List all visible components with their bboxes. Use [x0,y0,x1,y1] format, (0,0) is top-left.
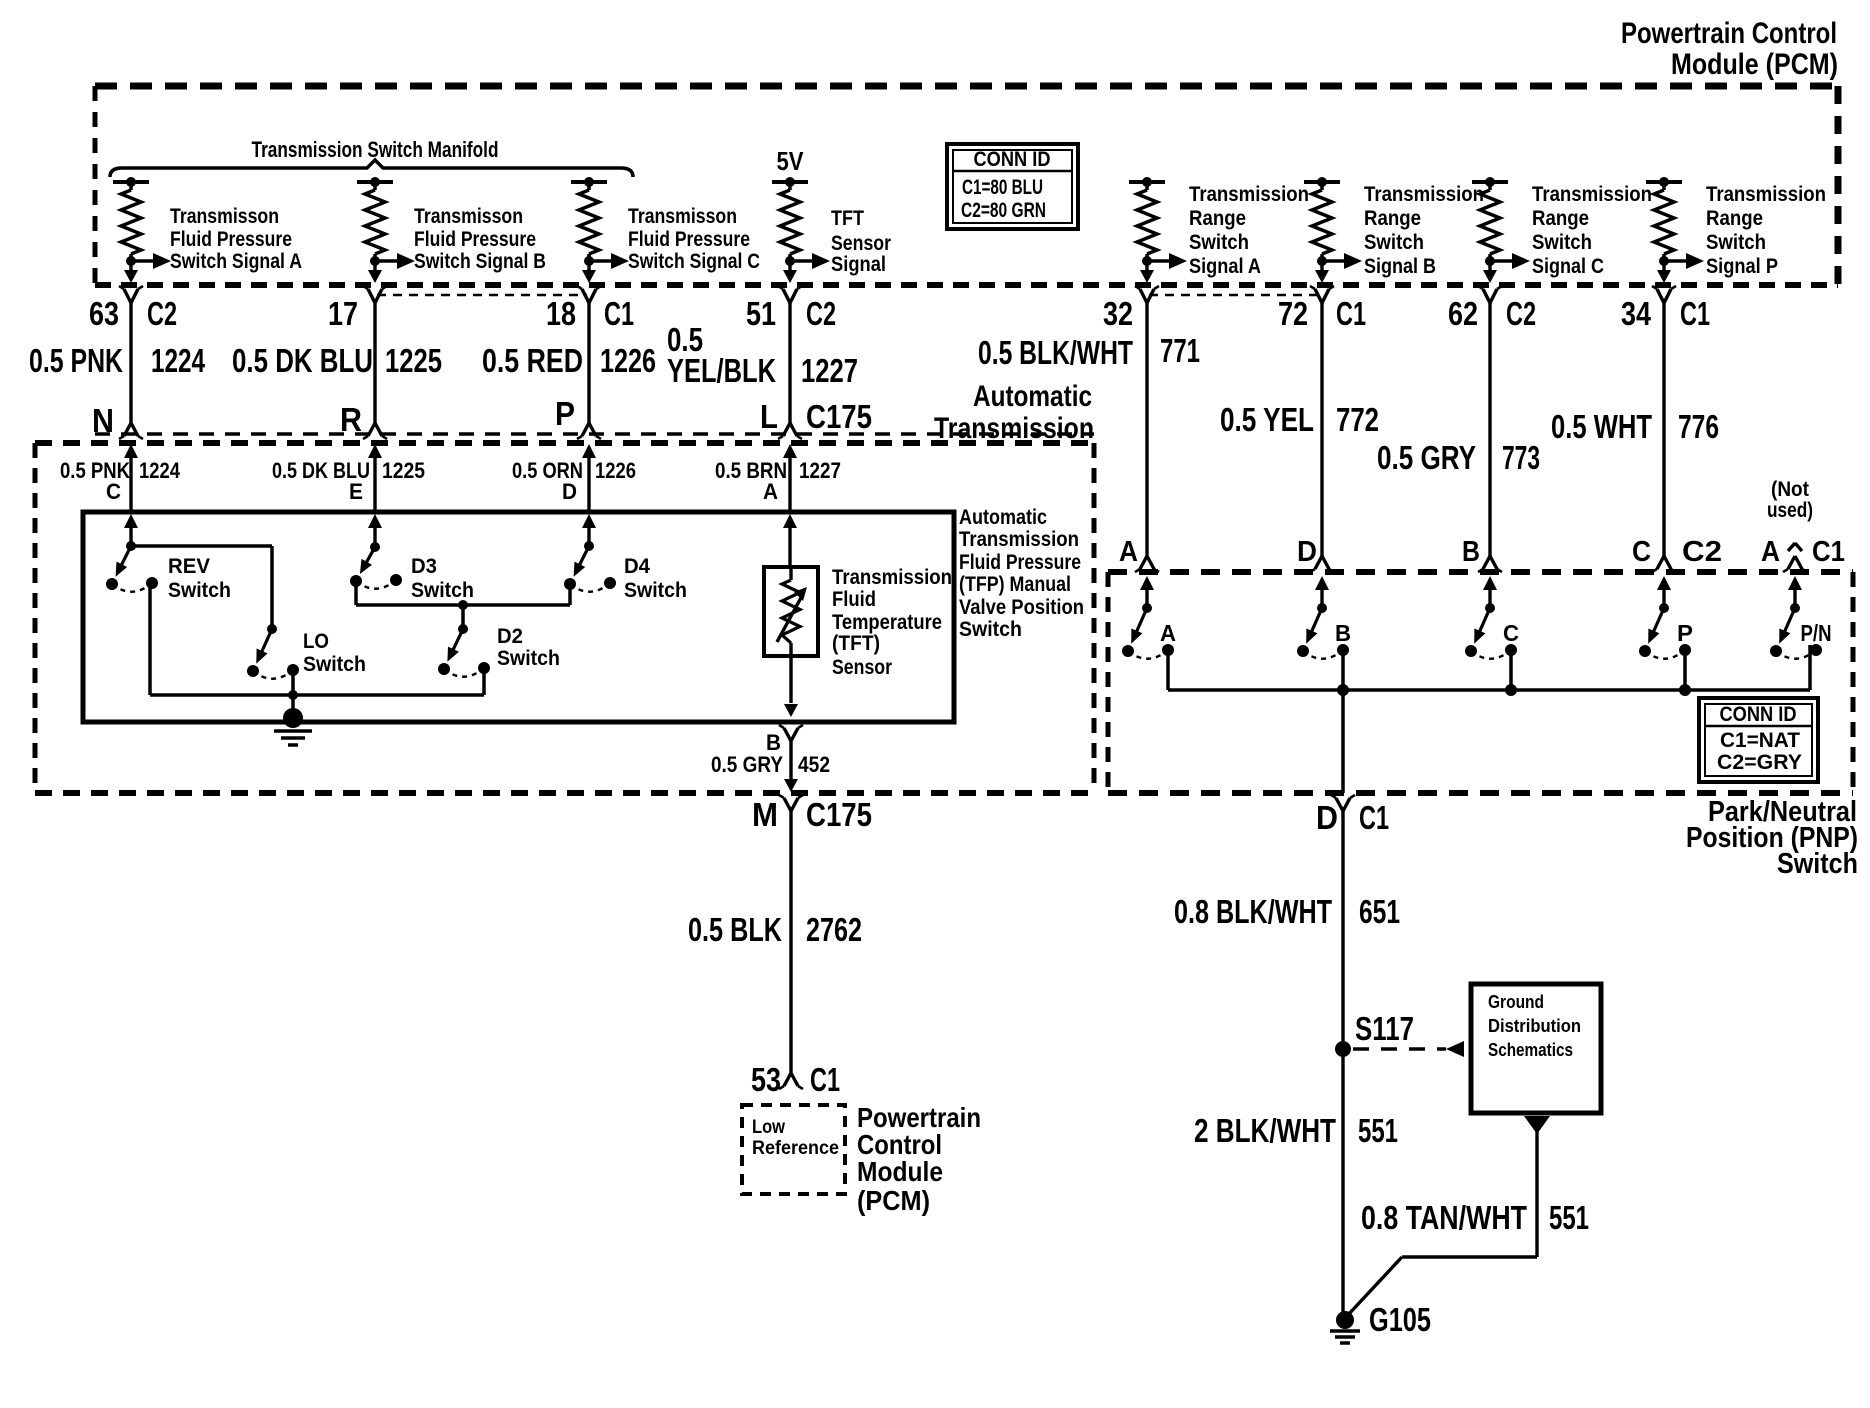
svg-text:Transmission: Transmission [959,528,1079,551]
svg-text:C175: C175 [806,398,872,435]
wire 1227 into transmission [783,444,797,512]
wire 0.5 DK BLU 1225 label [232,342,442,379]
svg-text:D3: D3 [411,555,437,578]
TFP switch signal C pull-up resistor [571,177,629,283]
svg-text:Switch: Switch [1532,231,1592,254]
C175 pin N [92,402,114,439]
TFP ground stem [291,695,295,714]
svg-text:Switch: Switch [497,647,560,670]
PNP switch P [1639,603,1691,659]
svg-text:1226: 1226 [600,342,656,379]
PNP switch C input arrow [1483,576,1497,608]
svg-text:C: C [106,479,121,504]
PNP switch dashed box bottom [1108,790,1853,796]
svg-text:A: A [1160,620,1176,646]
PNP switch P contact stub [1679,651,1691,696]
D2 switch label [497,625,560,670]
svg-text:32: 32 [1103,295,1133,332]
TFP pin C [106,479,121,504]
manifold bracket [110,160,633,177]
svg-text:1225: 1225 [385,342,442,379]
svg-text:Ground: Ground [1488,992,1544,1012]
TFP internal ground bus [150,693,484,697]
svg-text:Signal P: Signal P [1706,255,1778,278]
svg-text:TFT: TFT [831,207,864,230]
svg-text:REV: REV [168,555,210,578]
Powertrain Control Module PCM bottom label [857,1102,981,1216]
svg-text:(TFT): (TFT) [832,632,880,655]
svg-text:Fluid: Fluid [832,588,876,611]
svg-text:Fluid Pressure: Fluid Pressure [414,228,536,251]
TFT sensor label [832,566,952,679]
svg-text:C1: C1 [810,1061,840,1098]
svg-text:Switch Signal C: Switch Signal C [628,250,760,273]
PNP switch C contact stub [1505,651,1517,696]
PNP output wire D [1337,651,1349,793]
svg-text:Switch: Switch [1777,848,1858,880]
svg-text:5V: 5V [777,146,805,176]
svg-text:Module (PCM): Module (PCM) [1671,48,1838,81]
PCM module dashed box left border [93,86,98,285]
TFP pin E [349,479,363,504]
TFP switch box label [959,506,1084,641]
transmission range switch signal C pull-up resistor label [1532,183,1652,278]
svg-text:Switch: Switch [411,579,474,602]
svg-text:used): used) [1767,499,1813,522]
svg-text:C2: C2 [1682,536,1722,568]
svg-text:Transmisson: Transmisson [414,205,523,228]
wire 1226 into transmission [582,444,596,512]
C175 pin M label [752,796,872,833]
svg-text:Switch Signal B: Switch Signal B [414,250,546,273]
transmission range switch signal C pull-up resistor [1472,177,1530,283]
wire 0.5 PNK 1224 label [29,342,205,379]
PNP pin C C2 label [1632,536,1722,568]
svg-text:Switch: Switch [168,579,231,602]
svg-text:0.5 PNK: 0.5 PNK [29,342,123,379]
PNP pin A label [1119,536,1138,568]
svg-text:Signal A: Signal A [1189,255,1261,278]
pin 34 C1 [1621,295,1710,332]
D2 switch [438,624,490,677]
svg-text:0.5 RED: 0.5 RED [482,342,583,379]
TFT sensor signal label [831,207,891,276]
REV switch [106,541,158,592]
CONN ID table PNP connectors [1699,698,1818,782]
svg-text:773: 773 [1502,439,1540,476]
C175 pin L label and C175 name [760,398,872,435]
svg-text:YEL/BLK: YEL/BLK [667,352,776,389]
PNP switch B [1297,603,1349,659]
wire TFT to box bottom [784,656,798,717]
wire A into TFP box [783,514,797,566]
Ground Distribution Schematics label [1488,992,1581,1060]
wire 0.5 WHT 776 label [1551,408,1719,445]
wire 2 BLK/WHT 551 label [1194,1112,1398,1149]
TFT sensor signal pull-up resistor [772,177,830,283]
Low Reference label [752,1117,839,1159]
svg-text:0.8 BLK/WHT: 0.8 BLK/WHT [1174,893,1332,930]
wire 0.8 TAN/WHT 551 branch [1347,1116,1550,1316]
wire 776 PCM connector fork [1652,286,1676,303]
C175 connector dashed line [95,432,1094,436]
PCM module dashed box bottom border [95,282,1838,288]
PNP switch dashed box right [1851,572,1856,793]
transmission range switch signal P pull-up resistor [1646,177,1704,283]
pin 32 [1103,295,1133,332]
svg-text:0.5 DK BLU: 0.5 DK BLU [232,342,373,379]
svg-text:C2: C2 [806,295,836,332]
TFP pin B label [766,730,781,755]
svg-text:P/N: P/N [1801,620,1832,646]
svg-text:C2=GRY: C2=GRY [1717,751,1802,774]
PNP pin A C1 not used label [1761,536,1845,568]
D4 switch label [624,555,687,602]
svg-text:Module: Module [857,1156,943,1187]
PNP switch P/N contact stub [1808,645,1812,690]
PNP pin D label [1297,536,1317,568]
wire REV top to LO switch [131,546,272,629]
label Powertrain Control Module (PCM) title [1621,17,1838,81]
wire REV contact down [148,584,152,695]
CONN ID table PCM connectors [947,144,1078,229]
svg-text:Fluid Pressure: Fluid Pressure [628,228,750,251]
wire D into TFP box [582,514,596,546]
svg-text:17: 17 [328,295,358,332]
wire C into TFP box [124,514,138,546]
PNP switch P input arrow [1657,576,1671,608]
svg-text:L: L [760,398,778,435]
wire 0.5 ORN 1226 lower label [512,458,636,483]
svg-text:Distribution: Distribution [1488,1016,1581,1036]
wire LO contact down [288,671,298,700]
TFP switch signal A pull-up resistor [113,177,171,283]
Ground Distribution Schematics box [1471,984,1601,1113]
PCM module dashed box right border [1835,86,1842,285]
svg-text:551: 551 [1358,1112,1398,1149]
PNP switch C [1465,603,1517,659]
wire 771 segment [1135,303,1159,572]
svg-text:Transmission: Transmission [1532,183,1652,206]
TFP pin D [562,479,577,504]
Transmission Switch Manifold label [252,137,499,162]
wire 1226 PCM connector fork [577,286,601,303]
wire D2 contact down [482,669,486,695]
wire 1225 upper segment [363,303,387,439]
svg-text:Transmisson: Transmisson [628,205,737,228]
C175 pin P [555,395,575,432]
TFP pin A [763,479,778,504]
svg-text:452: 452 [798,752,830,777]
wire 0.5 GRY 452 label [711,752,830,777]
svg-text:Transmission: Transmission [1189,183,1309,206]
Automatic Transmission dashed box right [1092,443,1097,793]
wire 1224 upper segment [119,303,143,439]
svg-text:D: D [562,479,577,504]
wire 776 segment [1652,303,1676,572]
ground symbol TFP [274,708,312,745]
PCM module dashed box top border [95,83,1838,90]
svg-text:Switch Signal A: Switch Signal A [170,250,302,273]
svg-text:D2: D2 [497,625,523,648]
svg-text:CONN ID: CONN ID [974,148,1051,171]
svg-text:0.5 WHT: 0.5 WHT [1551,408,1652,445]
LO switch label [303,630,366,676]
svg-text:Transmisson: Transmisson [170,205,279,228]
svg-text:A: A [1761,536,1780,568]
Automatic Transmission label [934,380,1094,445]
TFT sensor box [764,567,818,656]
svg-text:C1: C1 [1359,799,1389,836]
svg-text:Reference: Reference [752,1138,839,1159]
svg-text:1224: 1224 [139,458,181,483]
wire E into TFP box [368,514,382,546]
wire 772 PCM connector fork [1310,286,1334,303]
PNP switch P/N [1770,603,1822,659]
svg-text:51: 51 [746,295,776,332]
svg-text:Fluid Pressure: Fluid Pressure [170,228,292,251]
svg-text:72: 72 [1278,295,1308,332]
wire 0.5 DK BLU 1225 lower label [272,458,425,483]
svg-text:551: 551 [1549,1199,1589,1236]
C175 pin M fork [779,795,803,811]
transmission range switch signal A pull-up resistor [1129,177,1187,283]
svg-text:B: B [1335,620,1351,646]
wire 1224 PCM connector fork [119,286,143,303]
PNP switch P/N input arrow [1788,576,1802,608]
svg-text:34: 34 [1621,295,1652,332]
svg-text:Signal C: Signal C [1532,255,1604,278]
TFP switch signal C pull-up resistor label [628,205,760,273]
svg-text:M: M [752,796,778,833]
svg-text:Powertrain Control: Powertrain Control [1621,17,1837,50]
svg-text:62: 62 [1448,295,1478,332]
svg-text:C2: C2 [147,295,177,332]
svg-text:S117: S117 [1355,1010,1414,1047]
PCM pin 53 C1 label [751,1061,840,1098]
svg-text:P: P [1677,620,1693,646]
wire 0.5 YEL 772 label [1220,401,1379,438]
wire 0.5 BLK/WHT 771 label [978,332,1200,371]
PNP switch P/N label [1801,620,1832,646]
wire 1227 PCM connector fork [778,286,802,303]
connector C1 group dashed line left [377,294,587,297]
svg-text:C: C [1632,536,1651,568]
svg-text:Sensor: Sensor [831,232,891,255]
svg-text:0.5 BLK: 0.5 BLK [688,911,782,948]
svg-text:2762: 2762 [806,911,862,948]
svg-text:A: A [1119,536,1138,568]
pin D C1 label [1316,799,1389,836]
wire 0.5 RED 1226 label [482,342,656,379]
PNP switch dashed box top [1108,569,1853,575]
svg-text:C2=80 GRN: C2=80 GRN [961,199,1046,222]
svg-text:D4: D4 [624,555,650,578]
svg-text:Automatic: Automatic [959,506,1047,529]
wire 0.5 PNK 1224 lower label [60,458,181,483]
svg-text:C1: C1 [604,295,634,332]
wire 1225 into transmission [368,444,382,512]
PCM pin 53 fork [779,1073,803,1089]
svg-text:(Not: (Not [1771,478,1809,501]
transmission range switch signal B pull-up resistor label [1364,183,1484,278]
transmission range switch signal B pull-up resistor [1304,177,1362,283]
PNP connector pin D fork [1331,795,1355,811]
not used note [1767,478,1813,522]
svg-text:1224: 1224 [151,342,205,379]
D4 switch [564,541,616,592]
svg-text:0.8 TAN/WHT: 0.8 TAN/WHT [1361,1199,1527,1236]
svg-text:2 BLK/WHT: 2 BLK/WHT [1194,1112,1336,1149]
svg-text:C1: C1 [1680,295,1710,332]
PNP switch A input arrow [1140,576,1154,608]
PNP switch P label [1677,620,1693,646]
svg-text:Range: Range [1706,207,1763,230]
pin 17 [328,295,358,332]
svg-text:1227: 1227 [799,458,841,483]
svg-text:0.5 YEL: 0.5 YEL [1220,401,1314,438]
svg-text:(TFP) Manual: (TFP) Manual [959,573,1071,596]
svg-text:C1: C1 [1812,536,1845,568]
TFP pin B fork [779,725,803,741]
svg-text:Valve Position: Valve Position [959,596,1084,619]
svg-text:776: 776 [1678,408,1719,445]
wire 651 segment [1341,811,1344,1041]
svg-text:Transmission: Transmission [934,412,1094,445]
pin 18 C1 [546,295,634,332]
svg-text:Switch: Switch [624,579,687,602]
S117 dashed reference line [1353,1041,1464,1057]
TFP switch signal A pull-up resistor label [170,205,302,273]
C175 pin R [340,401,362,438]
D3 switch label [411,555,474,602]
svg-text:Switch: Switch [1189,231,1249,254]
svg-text:0.5 GRY: 0.5 GRY [711,752,783,777]
transmission range switch signal P pull-up resistor label [1706,183,1826,278]
Automatic Transmission dashed box top [35,440,1094,446]
splice S117 [1335,1010,1414,1057]
PNP switch B label [1335,620,1351,646]
svg-text:1226: 1226 [595,458,636,483]
wire 2762 segment [789,811,792,1073]
wire 773 segment [1478,303,1502,572]
svg-text:Range: Range [1364,207,1421,230]
svg-text:Range: Range [1189,207,1246,230]
PNP switch dashed box left [1106,572,1111,793]
wire 0.5 YEL/BLK 1227 label [667,321,858,389]
D3 switch [350,542,402,589]
wire 0.5 BLK 2762 label [688,911,862,948]
wire junction to D2 switch [461,605,465,629]
wire 452 segment [784,741,798,792]
svg-text:Switch: Switch [1364,231,1424,254]
PNP not used pin caret [1783,543,1807,572]
svg-text:18: 18 [546,295,576,332]
5V supply label [777,146,805,176]
wire 772 segment [1310,303,1334,572]
svg-text:C: C [1503,620,1519,646]
svg-text:772: 772 [1336,401,1379,438]
wire 0.5 GRY 773 label [1377,439,1540,476]
svg-text:651: 651 [1359,893,1400,930]
svg-text:LO: LO [303,630,329,653]
svg-text:Range: Range [1532,207,1589,230]
wire 771 PCM connector fork [1135,286,1159,303]
svg-text:C2: C2 [1506,295,1536,332]
svg-text:Signal B: Signal B [1364,255,1436,278]
svg-text:53: 53 [751,1061,781,1098]
svg-text:C175: C175 [806,796,872,833]
svg-text:Transmission: Transmission [1364,183,1484,206]
connector C1 group dashed line right [1149,294,1318,297]
wire 0.8 TAN/WHT 551 label [1361,1199,1589,1236]
svg-text:C1=NAT: C1=NAT [1720,729,1800,752]
svg-text:P: P [555,395,575,432]
svg-text:Automatic: Automatic [973,380,1092,413]
svg-text:D: D [1316,799,1338,836]
Park/Neutral Position PNP Switch label [1686,796,1858,880]
TFT thermistor symbol [777,566,807,656]
svg-text:G105: G105 [1369,1301,1431,1338]
svg-text:B: B [1462,536,1480,568]
TFP switch signal B pull-up resistor [357,177,415,283]
svg-text:Temperature: Temperature [832,611,942,634]
svg-text:C1=80 BLU: C1=80 BLU [962,176,1043,199]
wire 0.5 BRN 1227 lower label [715,458,841,483]
Automatic Transmission dashed box bottom [35,790,1094,796]
svg-text:0.5 GRY: 0.5 GRY [1377,439,1476,476]
pin 62 C2 [1448,295,1536,332]
svg-text:Transmission: Transmission [1706,183,1826,206]
PNP switch C label [1503,620,1519,646]
svg-text:(PCM): (PCM) [857,1185,930,1216]
ground G105 [1330,1311,1360,1343]
PNP switch A contact stub [1166,651,1170,690]
svg-text:Sensor: Sensor [832,656,892,679]
PNP switch A label [1160,620,1176,646]
pin 63 C2 [89,295,177,332]
PNP switch B input arrow [1315,576,1329,608]
wire 1225 PCM connector fork [363,286,387,303]
svg-text:D: D [1297,536,1317,568]
svg-text:Low: Low [752,1117,785,1138]
PNP common bus [1168,688,1810,692]
wire 1226 upper segment [577,303,601,439]
pin 51 C2 [746,295,836,332]
REV switch label [168,555,231,602]
wire 1227 upper segment [778,303,802,439]
PNP switch A [1122,603,1174,659]
svg-text:Switch: Switch [303,653,366,676]
svg-text:1225: 1225 [382,458,425,483]
Low Reference dashed box [742,1105,845,1194]
svg-text:771: 771 [1160,332,1200,369]
svg-text:Transmission: Transmission [832,566,952,589]
transmission range switch signal A pull-up resistor label [1189,183,1309,278]
svg-text:Switch: Switch [1706,231,1766,254]
svg-text:63: 63 [89,295,119,332]
TFP switch signal B pull-up resistor label [414,205,546,273]
wire 1224 into transmission [124,444,138,512]
svg-text:CONN ID: CONN ID [1720,703,1797,726]
svg-text:1227: 1227 [801,352,858,389]
svg-text:Signal: Signal [831,253,886,276]
wire 0.8 BLK/WHT 651 label [1174,893,1400,930]
wire D3 common to D4 common [356,584,570,610]
G105 label [1369,1301,1431,1338]
Automatic Transmission dashed box left [33,443,38,793]
PNP pin B label [1462,536,1480,568]
